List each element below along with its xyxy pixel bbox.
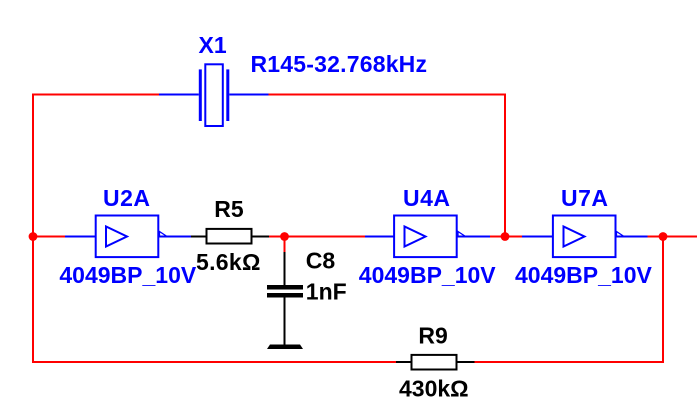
wire bottom left (rail to R9)	[32, 361, 396, 363]
wire right upper vertical (corner down to node B)	[504, 94, 506, 237]
svg-text:U2A: U2A	[103, 185, 151, 211]
capacitor C8	[267, 252, 303, 345]
node at R5/C8 junction dot	[280, 232, 289, 241]
svg-text:R145-32.768kHz: R145-32.768kHz	[251, 51, 428, 77]
wire bottom right (R9 to rail)	[475, 361, 665, 363]
resistor R9	[396, 355, 475, 370]
svg-text:C8: C8	[306, 247, 336, 273]
svg-text:5.6kΩ: 5.6kΩ	[196, 249, 261, 275]
wire U4A output to U7A input	[490, 236, 522, 238]
svg-text:U7A: U7A	[561, 185, 609, 211]
wire node A to U2A input	[33, 236, 65, 238]
svg-text:4049BP_10V: 4049BP_10V	[359, 262, 496, 288]
svg-text:4049BP_10V: 4049BP_10V	[59, 262, 196, 288]
wire top-right horizontal (crystal to corner)	[269, 94, 507, 96]
inverter U4A	[365, 216, 490, 258]
wire right lower vertical rail	[662, 237, 664, 364]
wire C8 top stub (red)	[284, 237, 286, 253]
svg-text:430kΩ: 430kΩ	[399, 375, 469, 401]
node C junction dot (output/R9)	[659, 232, 668, 241]
wire U7A output to right edge	[648, 236, 697, 238]
wire left vertical rail	[32, 94, 34, 364]
wire R5 to U4A input	[269, 236, 365, 238]
svg-text:U4A: U4A	[403, 185, 451, 211]
wire top-left horizontal (net to crystal)	[32, 94, 159, 96]
ground	[267, 345, 303, 350]
svg-text:1nF: 1nF	[306, 278, 347, 304]
inverter U2A	[65, 216, 191, 258]
node B junction dot (crystal feedback)	[501, 232, 510, 241]
svg-text:4049BP_10V: 4049BP_10V	[515, 262, 652, 288]
svg-text:X1: X1	[199, 32, 227, 58]
svg-text:R5: R5	[214, 196, 244, 222]
crystal X1	[159, 64, 269, 126]
svg-text:R9: R9	[418, 322, 447, 348]
node A junction dot	[29, 232, 38, 241]
inverter U7A	[522, 216, 648, 258]
resistor R5	[191, 229, 269, 244]
